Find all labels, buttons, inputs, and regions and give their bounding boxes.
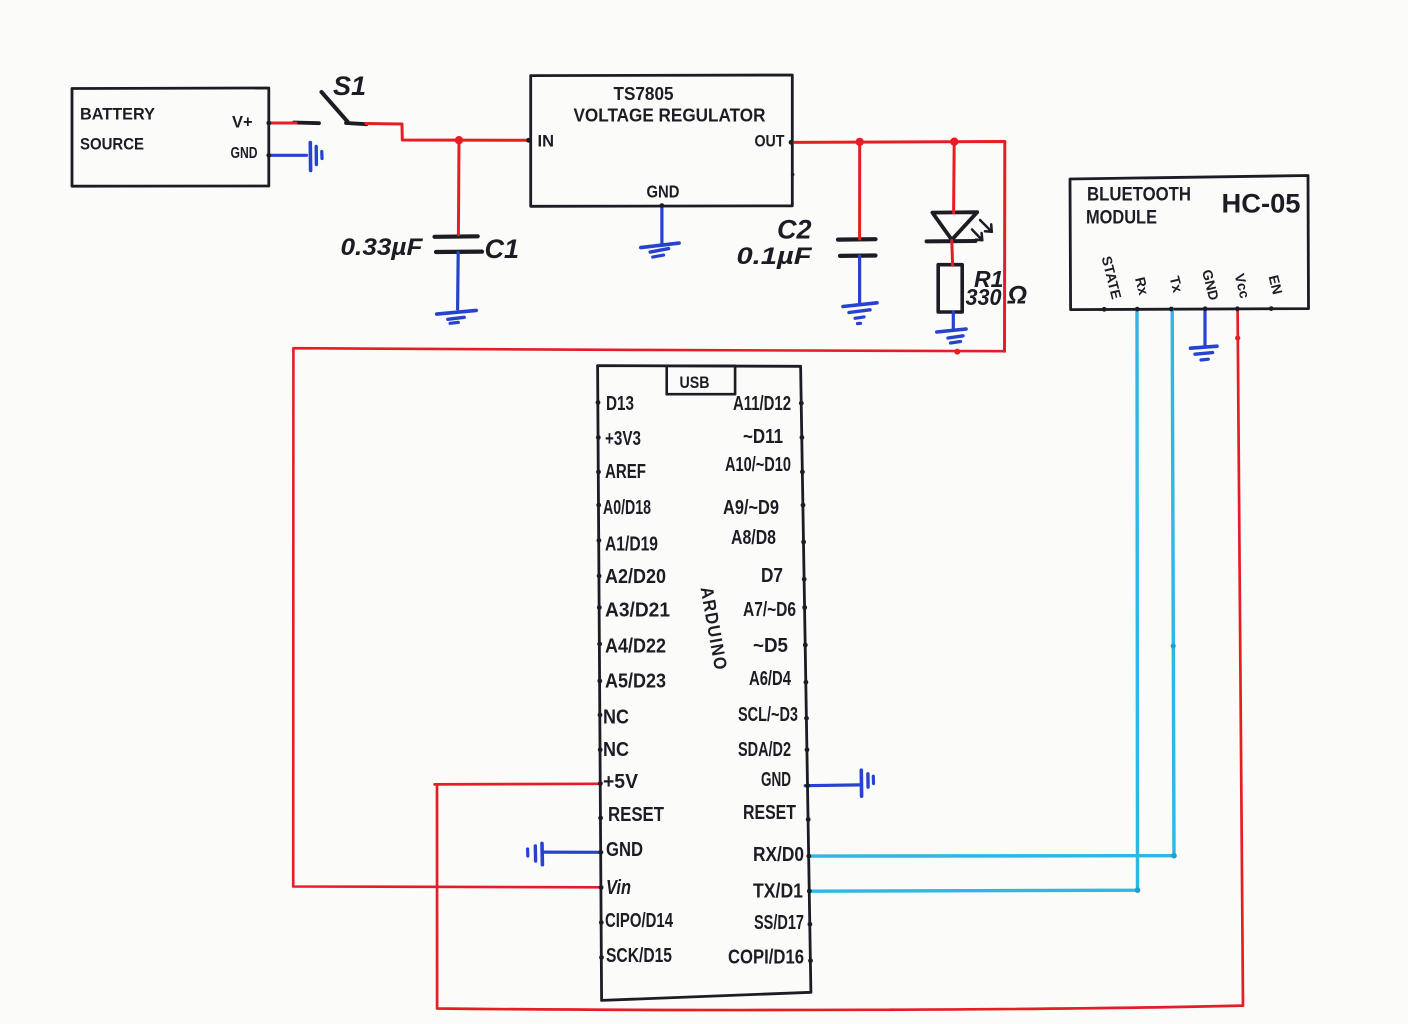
svg-text:GND: GND bbox=[231, 145, 258, 162]
svg-text:A10/~D10: A10/~D10 bbox=[725, 454, 791, 476]
svg-text:C1: C1 bbox=[485, 234, 520, 264]
svg-text:RESET: RESET bbox=[743, 802, 796, 824]
svg-text:SCK/D15: SCK/D15 bbox=[606, 945, 672, 967]
svg-text:D7: D7 bbox=[761, 565, 783, 587]
svg-text:A3/D21: A3/D21 bbox=[605, 600, 670, 622]
svg-text:COPI/D16: COPI/D16 bbox=[728, 947, 804, 969]
svg-text:BATTERY: BATTERY bbox=[80, 105, 156, 124]
svg-text:USB: USB bbox=[680, 373, 710, 392]
svg-text:CIPO/D14: CIPO/D14 bbox=[605, 910, 674, 932]
svg-text:GND: GND bbox=[647, 182, 680, 202]
svg-text:SOURCE: SOURCE bbox=[80, 135, 144, 154]
svg-text:A9/~D9: A9/~D9 bbox=[723, 497, 779, 519]
svg-text:NC: NC bbox=[603, 739, 629, 761]
svg-text:~D5: ~D5 bbox=[753, 635, 788, 657]
svg-text:S1: S1 bbox=[333, 71, 366, 101]
svg-text:AREF: AREF bbox=[605, 461, 646, 483]
svg-text:+5V: +5V bbox=[603, 771, 639, 793]
svg-text:TX/D1: TX/D1 bbox=[753, 881, 803, 903]
svg-text:A1/D19: A1/D19 bbox=[605, 534, 658, 556]
svg-text:V+: V+ bbox=[232, 114, 253, 132]
svg-text:A5/D23: A5/D23 bbox=[605, 671, 666, 693]
svg-text:SDA/D2: SDA/D2 bbox=[738, 739, 791, 761]
svg-text:TS7805: TS7805 bbox=[614, 84, 674, 104]
svg-text:Ω: Ω bbox=[1007, 282, 1028, 310]
svg-text:RX/D0: RX/D0 bbox=[753, 844, 804, 866]
svg-text:A0/D18: A0/D18 bbox=[603, 497, 651, 519]
svg-text:A6/D4: A6/D4 bbox=[749, 668, 792, 690]
svg-text:SCL/~D3: SCL/~D3 bbox=[738, 704, 798, 726]
svg-text:MODULE: MODULE bbox=[1086, 208, 1157, 229]
svg-text:HC-05: HC-05 bbox=[1222, 189, 1301, 219]
svg-text:GND: GND bbox=[761, 769, 791, 791]
svg-text:D13: D13 bbox=[606, 393, 634, 415]
svg-text:C2: C2 bbox=[777, 215, 812, 245]
svg-text:SS/D17: SS/D17 bbox=[754, 912, 804, 934]
svg-text:A11/D12: A11/D12 bbox=[733, 393, 791, 415]
svg-text:A8/D8: A8/D8 bbox=[731, 527, 776, 549]
svg-text:Vin: Vin bbox=[606, 877, 631, 899]
svg-text:GND: GND bbox=[606, 839, 643, 861]
svg-text:+3V3: +3V3 bbox=[605, 428, 641, 450]
svg-text:A4/D22: A4/D22 bbox=[605, 636, 666, 658]
svg-text:NC: NC bbox=[603, 707, 629, 729]
svg-text:BLUETOOTH: BLUETOOTH bbox=[1087, 185, 1191, 206]
svg-text:330: 330 bbox=[966, 284, 1002, 310]
svg-text:0.33µF: 0.33µF bbox=[341, 234, 424, 261]
svg-text:IN: IN bbox=[538, 133, 555, 151]
svg-text:VOLTAGE REGULATOR: VOLTAGE REGULATOR bbox=[574, 106, 766, 126]
svg-text:OUT: OUT bbox=[755, 133, 785, 151]
svg-text:A2/D20: A2/D20 bbox=[605, 566, 666, 588]
svg-text:~D11: ~D11 bbox=[743, 426, 783, 448]
svg-text:A7/~D6: A7/~D6 bbox=[743, 599, 796, 621]
svg-text:RESET: RESET bbox=[608, 804, 664, 826]
svg-text:0.1µF: 0.1µF bbox=[737, 243, 814, 270]
